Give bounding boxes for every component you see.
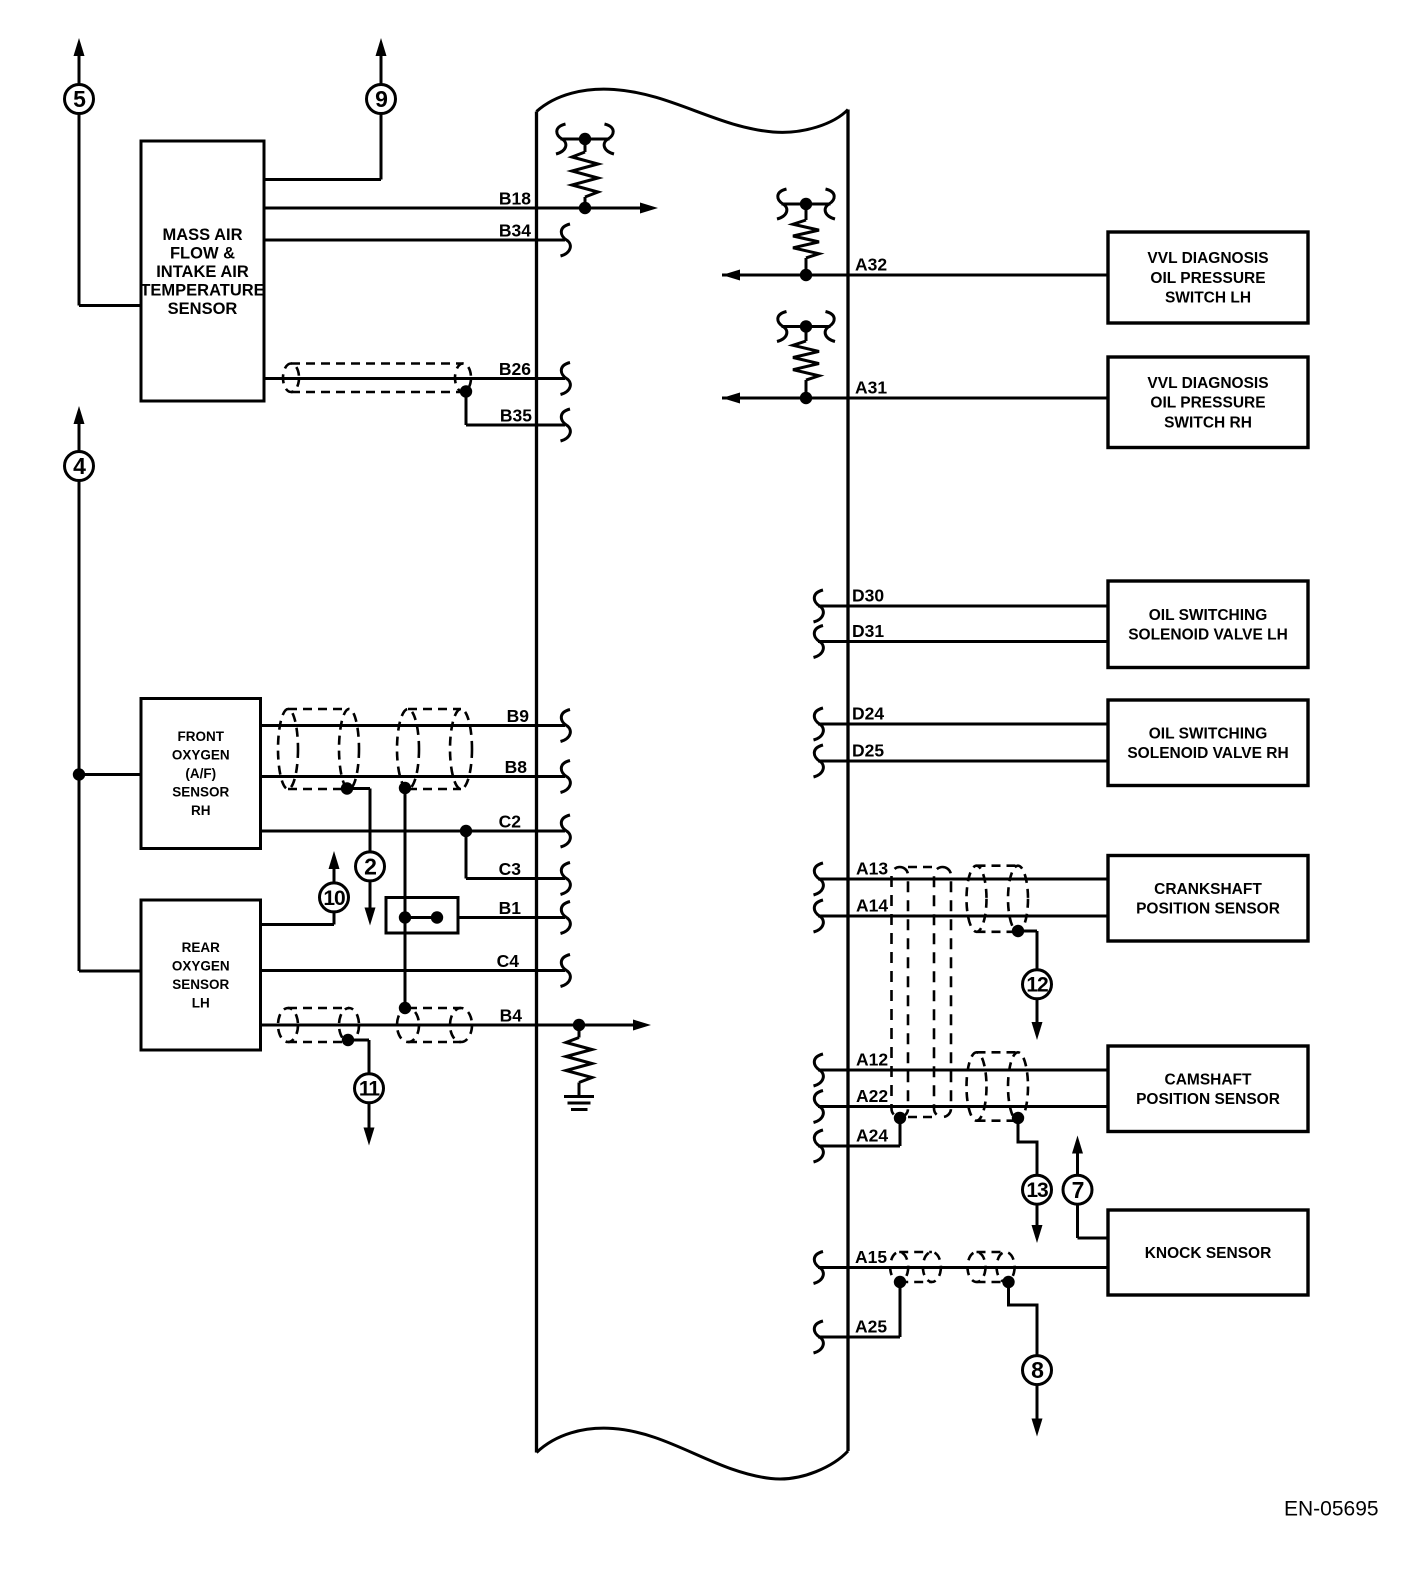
break squiggle A15 bbox=[814, 1252, 824, 1284]
arrow down below circle 8 bbox=[1032, 1419, 1043, 1437]
arrow down below circle 11 bbox=[364, 1128, 375, 1146]
resistor lead bottom (B4 ground) bbox=[578, 1083, 581, 1097]
break squiggle A14 bbox=[814, 900, 824, 932]
shield group 2 around A15 bbox=[968, 1252, 1015, 1282]
box CRANKSHAFT POSITION SENSOR bbox=[1108, 856, 1308, 942]
svg-text:REAR: REAR bbox=[182, 940, 221, 955]
wire B35 bbox=[466, 424, 565, 427]
junction C2/C3 bbox=[460, 825, 472, 837]
arrow down below circle 2 bbox=[365, 908, 376, 926]
wire C4 bbox=[261, 969, 566, 972]
break squiggle A24 bbox=[814, 1130, 824, 1162]
wire crank shield drain to circle 12 bbox=[1018, 930, 1037, 933]
break squiggle C4 bbox=[561, 955, 571, 987]
svg-text:SENSOR: SENSOR bbox=[168, 300, 238, 318]
svg-text:B18: B18 bbox=[499, 189, 531, 209]
wire C2 branch down to C3 bbox=[465, 831, 468, 879]
wire circle5 down segment bbox=[78, 114, 81, 306]
svg-text:C2: C2 bbox=[499, 812, 522, 832]
resistor pull-up top (B18) bbox=[561, 138, 610, 141]
junction cam shield right drain (to circle 13) bbox=[1012, 1112, 1024, 1124]
box REAR OXYGEN SENSOR LH bbox=[141, 900, 261, 1050]
svg-text:4: 4 bbox=[73, 453, 86, 479]
junction on left bus at front oxygen sensor bbox=[73, 768, 85, 780]
wire above circle 10 bbox=[333, 867, 336, 883]
wire left bus to FRONT OXYGEN sensor bbox=[79, 773, 141, 776]
svg-text:B8: B8 bbox=[505, 757, 528, 777]
svg-text:SOLENOID VALVE LH: SOLENOID VALVE LH bbox=[1128, 627, 1288, 644]
box CAMSHAFT POSITION SENSOR bbox=[1108, 1046, 1308, 1132]
junction A15 shield right drain (to circle 8) bbox=[1002, 1276, 1014, 1288]
wire from MAF sensor to circle 9 bbox=[264, 178, 381, 181]
svg-text:INTAKE AIR: INTAKE AIR bbox=[156, 263, 249, 281]
shield link dashes top bbox=[908, 866, 934, 869]
svg-text:A15: A15 bbox=[855, 1247, 887, 1267]
wire B9 bbox=[261, 724, 566, 727]
arrow up above circle 7 bbox=[1072, 1136, 1083, 1154]
svg-text:7: 7 bbox=[1072, 1177, 1084, 1203]
junction cam shield left drain (A24) bbox=[894, 1112, 906, 1124]
svg-text:OIL PRESSURE: OIL PRESSURE bbox=[1150, 395, 1265, 412]
svg-text:8: 8 bbox=[1031, 1357, 1044, 1383]
arrow right end of B18 bbox=[640, 203, 658, 214]
box FRONT OXYGEN (A/F) SENSOR RH bbox=[141, 699, 261, 849]
break squiggle B8 bbox=[561, 761, 571, 793]
wire C2 bbox=[261, 830, 566, 833]
svg-text:VVL DIAGNOSIS: VVL DIAGNOSIS bbox=[1147, 375, 1268, 392]
svg-text:A12: A12 bbox=[856, 1050, 888, 1070]
svg-text:C3: C3 bbox=[499, 859, 522, 879]
wire to circuit 9 (up lead) bbox=[380, 54, 383, 85]
break squiggle C2 bbox=[561, 815, 571, 847]
arrow right end of B4 bbox=[633, 1020, 651, 1031]
svg-text:B1: B1 bbox=[499, 898, 522, 918]
circled number 8 bbox=[1023, 1356, 1052, 1385]
wire A12 bbox=[818, 1069, 1108, 1072]
shield group 1 around B4 bbox=[278, 1008, 359, 1042]
break squiggle D24 bbox=[814, 708, 824, 740]
resistor zigzag B18 bbox=[572, 152, 598, 197]
wire left bus to REAR OXYGEN sensor bbox=[79, 970, 141, 973]
svg-text:KNOCK SENSOR: KNOCK SENSOR bbox=[1145, 1245, 1272, 1262]
break squiggle D31 bbox=[814, 626, 824, 658]
svg-text:FLOW &: FLOW & bbox=[170, 244, 235, 262]
wire to circuit 4 (up lead) bbox=[78, 422, 81, 452]
svg-text:11: 11 bbox=[359, 1078, 381, 1101]
svg-text:B26: B26 bbox=[499, 359, 531, 379]
resistor pull-up top (A32) bbox=[782, 203, 831, 206]
wire A31 bbox=[722, 397, 1108, 400]
svg-text:SWITCH LH: SWITCH LH bbox=[1165, 290, 1251, 307]
shield group 2 around B4 bbox=[397, 1008, 472, 1042]
break squiggle C3 bbox=[561, 863, 571, 895]
svg-text:B34: B34 bbox=[499, 221, 531, 241]
svg-text:D30: D30 bbox=[852, 586, 884, 606]
resistor lead bottom A31 bbox=[805, 380, 808, 398]
wire D24 bbox=[818, 723, 1108, 726]
wire shield drain down to B35 bbox=[465, 392, 468, 426]
svg-text:A24: A24 bbox=[856, 1126, 888, 1146]
arrow left end of A31 bbox=[722, 393, 740, 404]
wire shield2 drain down through joint connector bbox=[404, 788, 407, 1008]
svg-text:POSITION SENSOR: POSITION SENSOR bbox=[1136, 1091, 1280, 1108]
junction shield1 drain B4 (to circle 11) bbox=[342, 1034, 354, 1046]
box OIL SWITCHING SOLENOID VALVE LH bbox=[1108, 581, 1308, 668]
arrow down below circle 12 bbox=[1032, 1022, 1043, 1040]
wire shield drain horizontal to circle 2 bbox=[347, 787, 370, 790]
resistor lead bottom B18 bbox=[584, 197, 587, 208]
wire B18 bbox=[264, 207, 641, 210]
svg-text:D31: D31 bbox=[852, 621, 884, 641]
wire shield drain horizontal to circle 11 bbox=[348, 1039, 369, 1042]
svg-text:SENSOR: SENSOR bbox=[172, 977, 229, 992]
resistor lead top B18 bbox=[584, 139, 587, 152]
svg-text:POSITION SENSOR: POSITION SENSOR bbox=[1136, 901, 1280, 918]
resistor pull-up top (A31) bbox=[782, 325, 831, 328]
svg-text:OIL PRESSURE: OIL PRESSURE bbox=[1150, 270, 1265, 287]
resistor lead top A31 bbox=[805, 327, 808, 342]
wire A24 bbox=[818, 1145, 900, 1148]
joint connector box (B1) bbox=[386, 898, 458, 934]
tall dashed shield racetrack 1 (crank/cam harness) bbox=[892, 867, 909, 1117]
wire A25 bbox=[818, 1336, 900, 1339]
ECM band torn top edge bbox=[537, 89, 849, 132]
arrow up above circle 5 bbox=[74, 38, 85, 56]
arrow up above circle 4 bbox=[74, 406, 85, 424]
svg-text:B35: B35 bbox=[500, 406, 532, 426]
svg-text:FRONT: FRONT bbox=[178, 729, 225, 744]
svg-text:OXYGEN: OXYGEN bbox=[172, 748, 230, 763]
wire B4 bbox=[261, 1024, 635, 1027]
svg-text:2: 2 bbox=[364, 853, 376, 879]
circled number 12 bbox=[1023, 970, 1052, 999]
junction A15 shield left drain (A25) bbox=[894, 1276, 906, 1288]
svg-text:MASS AIR: MASS AIR bbox=[162, 226, 242, 244]
tall dashed shield racetrack 2 (crank/cam harness) bbox=[934, 867, 951, 1117]
wire above circle 7 bbox=[1076, 1151, 1079, 1175]
wire D30 bbox=[818, 605, 1108, 608]
wire D31 bbox=[818, 640, 1108, 643]
shield group 1 around A15 bbox=[890, 1252, 941, 1282]
wire D25 bbox=[818, 760, 1108, 763]
svg-text:A32: A32 bbox=[855, 255, 887, 275]
resistor zigzag A31 bbox=[793, 341, 819, 380]
break squiggle B26 bbox=[561, 363, 571, 395]
svg-text:D24: D24 bbox=[852, 704, 884, 724]
wire to circuit 5 (up lead) bbox=[78, 54, 81, 85]
break squiggle B9 bbox=[561, 710, 571, 742]
arrow up above circle 10 bbox=[329, 851, 340, 869]
wire B1 bbox=[458, 916, 565, 919]
box KNOCK SENSOR bbox=[1108, 1210, 1308, 1295]
wire REAR oxygen to circle 10 bbox=[261, 923, 335, 926]
circled number 13 bbox=[1023, 1175, 1052, 1204]
wire B8 bbox=[261, 775, 566, 778]
svg-text:(A/F): (A/F) bbox=[185, 766, 216, 781]
wire A24 up to shield drain bbox=[899, 1118, 902, 1146]
resistor lead top (B4 ground) bbox=[578, 1025, 581, 1038]
resistor lead bottom A32 bbox=[805, 258, 808, 275]
svg-text:A25: A25 bbox=[855, 1317, 887, 1337]
wire A22 bbox=[818, 1105, 1108, 1108]
wire into MASS AIR FLOW sensor left bbox=[79, 304, 141, 307]
svg-text:EN-05695: EN-05695 bbox=[1284, 1498, 1379, 1521]
svg-text:C4: C4 bbox=[497, 951, 520, 971]
svg-text:B9: B9 bbox=[507, 706, 530, 726]
break squiggle D30 bbox=[814, 590, 824, 622]
svg-text:OIL SWITCHING: OIL SWITCHING bbox=[1149, 607, 1268, 624]
svg-text:A22: A22 bbox=[856, 1086, 888, 1106]
junction shield2 drain (to B1 joint) bbox=[399, 782, 411, 794]
svg-text:VVL DIAGNOSIS: VVL DIAGNOSIS bbox=[1147, 250, 1268, 267]
wire up into circle 7 bbox=[1076, 1204, 1079, 1238]
break squiggle D25 bbox=[814, 745, 824, 777]
svg-text:B4: B4 bbox=[500, 1006, 523, 1026]
ECM band right edge bbox=[846, 110, 849, 1452]
wire cam shield drain down through circle 13 bbox=[1018, 1118, 1037, 1228]
svg-text:CAMSHAFT: CAMSHAFT bbox=[1165, 1071, 1252, 1088]
arrow down below circle 13 bbox=[1032, 1225, 1043, 1243]
svg-text:TEMPERATURE: TEMPERATURE bbox=[140, 281, 264, 299]
left bus vertical wire (circle 4) bbox=[78, 481, 81, 972]
wire A25 up to shield drain bbox=[899, 1282, 902, 1337]
arrow up above circle 9 bbox=[376, 38, 387, 56]
shield around A12/A22 pair bbox=[967, 1052, 1029, 1120]
box VVL DIAGNOSIS OIL PRESSURE SWITCH RH bbox=[1108, 357, 1308, 448]
ECM band left edge bbox=[535, 112, 538, 1453]
junction shield2 top on B4 (drain from joint) bbox=[399, 1002, 411, 1014]
arrow left end of A32 bbox=[722, 270, 740, 281]
wire knock sensor to circle 7 bbox=[1078, 1237, 1109, 1240]
shield group 1 around B9/B8 bbox=[278, 709, 359, 789]
junction A32 wire / resistor bbox=[800, 269, 812, 281]
shield link dashes bottom bbox=[908, 1116, 934, 1119]
circled number 11 bbox=[355, 1074, 384, 1103]
svg-text:OIL SWITCHING: OIL SWITCHING bbox=[1149, 725, 1268, 742]
junction B4 / ground resistor bbox=[573, 1019, 585, 1031]
wire up into circle 10 bbox=[333, 912, 336, 925]
svg-text:9: 9 bbox=[375, 86, 387, 112]
svg-text:13: 13 bbox=[1026, 1179, 1048, 1202]
circled number 9 bbox=[367, 85, 396, 114]
wire down through circle 12 bbox=[1036, 931, 1039, 1024]
shield group 2 around B9/B8 bbox=[397, 709, 472, 789]
svg-text:D25: D25 bbox=[852, 741, 884, 761]
junction crank shield drain (to circle 12) bbox=[1012, 925, 1024, 937]
junction A31 wire / resistor bbox=[800, 392, 812, 404]
wire B26 bbox=[264, 377, 565, 380]
svg-text:SENSOR: SENSOR bbox=[172, 785, 229, 800]
wire down through circle 11 bbox=[368, 1040, 371, 1130]
svg-text:LH: LH bbox=[192, 996, 210, 1011]
wire below circle 8 bbox=[1036, 1385, 1039, 1421]
svg-text:A14: A14 bbox=[856, 896, 888, 916]
circled number 2 bbox=[356, 852, 385, 881]
svg-text:SWITCH RH: SWITCH RH bbox=[1164, 414, 1252, 431]
wire C3 bbox=[466, 877, 565, 880]
wire down through circle 2 bbox=[369, 789, 372, 910]
box OIL SWITCHING SOLENOID VALVE RH bbox=[1108, 700, 1308, 786]
wire A15 bbox=[818, 1266, 1108, 1269]
wire B34 bbox=[264, 239, 565, 242]
junction joint connector left bbox=[399, 911, 411, 923]
break squiggle A12 bbox=[814, 1054, 824, 1086]
svg-text:CRANKSHAFT: CRANKSHAFT bbox=[1154, 881, 1262, 898]
break squiggle A22 bbox=[814, 1091, 824, 1123]
break squiggle B35 bbox=[561, 409, 571, 441]
circled number 5 bbox=[65, 85, 94, 114]
circled number 10 bbox=[320, 883, 349, 912]
break squiggle B34 bbox=[561, 224, 571, 256]
svg-text:OXYGEN: OXYGEN bbox=[172, 959, 230, 974]
wire A13 bbox=[818, 878, 1108, 881]
box VVL DIAGNOSIS OIL PRESSURE SWITCH LH bbox=[1108, 232, 1308, 323]
box MASS AIR FLOW & INTAKE AIR TEMPERATURE SENSOR bbox=[140, 141, 264, 401]
shield (dashed) around B26 wire bbox=[283, 364, 471, 393]
break squiggle A13 bbox=[814, 863, 824, 895]
svg-text:A31: A31 bbox=[855, 378, 887, 398]
wire circle9 down segment bbox=[380, 114, 383, 180]
ground symbol bbox=[564, 1097, 594, 1110]
wire inside joint connector bbox=[405, 916, 437, 919]
junction joint connector right bbox=[431, 911, 443, 923]
wire A14 bbox=[818, 915, 1108, 918]
ECM band torn bottom edge bbox=[537, 1428, 849, 1479]
svg-text:12: 12 bbox=[1026, 974, 1048, 997]
circled number 7 bbox=[1063, 1175, 1092, 1204]
svg-text:SOLENOID VALVE RH: SOLENOID VALVE RH bbox=[1127, 745, 1288, 762]
junction B18 wire / resistor bbox=[579, 202, 591, 214]
svg-text:5: 5 bbox=[73, 86, 86, 112]
resistor lead top A32 bbox=[805, 204, 808, 220]
wire A32 bbox=[722, 274, 1108, 277]
junction shield drain B26 bbox=[460, 385, 472, 397]
break squiggle A25 bbox=[814, 1321, 824, 1353]
wire A15 shield drain jog to circle 8 bbox=[1009, 1282, 1038, 1356]
svg-text:RH: RH bbox=[191, 803, 211, 818]
shield around A13/A14 pair bbox=[967, 866, 1029, 932]
svg-text:10: 10 bbox=[323, 887, 345, 910]
resistor zigzag to ground (B4) bbox=[566, 1038, 592, 1083]
junction shield1 drain (to circle 2) bbox=[341, 782, 353, 794]
svg-text:A13: A13 bbox=[856, 859, 888, 879]
resistor zigzag A32 bbox=[793, 220, 819, 258]
circled number 4 bbox=[65, 452, 94, 481]
break squiggle B1 bbox=[561, 902, 571, 934]
